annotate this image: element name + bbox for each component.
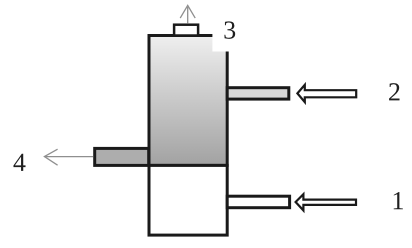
white label patch over top-right corner <box>212 8 248 52</box>
pipe 2 (upper right inlet, light gray) <box>227 88 289 99</box>
pipe 4 (left outlet, gray) <box>95 148 149 165</box>
arrow 1 (outline arrow pointing left) <box>296 194 356 210</box>
arrow 2 (outline arrow pointing left) <box>297 85 356 102</box>
label 4 <box>13 154 25 171</box>
nozzle (top stub) <box>174 25 198 36</box>
vessel upper section (gradient) <box>149 36 227 166</box>
arrow 3 (thin gray arrow up from nozzle) <box>180 5 195 23</box>
arrow 4 (thin gray arrow to left) <box>44 149 93 165</box>
vessel lower section (white) <box>149 165 227 235</box>
label 3 <box>224 21 235 38</box>
pipe 1 (lower right inlet, white) <box>227 196 289 208</box>
label 1 <box>394 192 403 209</box>
label 2 <box>389 83 399 100</box>
